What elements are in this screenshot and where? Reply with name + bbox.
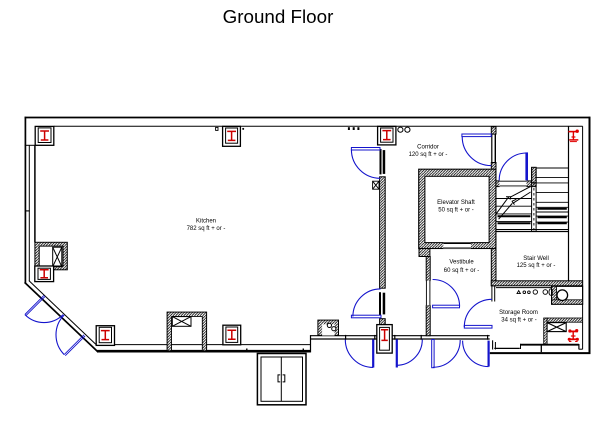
svg-text:Ground Floor: Ground Floor [223,6,334,27]
wall left inner [28,145,30,281]
landing door opening gap [500,180,527,187]
svg-text:50 sq ft + or -: 50 sq ft + or - [438,207,474,213]
svg-text:782 sq ft + or -: 782 sq ft + or - [187,226,226,232]
hatched wall kitchen-corridor [380,177,386,288]
wall diagonal outer [25,282,99,352]
svg-text:120 sq ft + or -: 120 sq ft + or - [409,152,448,158]
fixture box on corridor wall [318,320,339,335]
storage counter left end [520,344,522,349]
svg-text:Vestibule: Vestibule [449,260,474,266]
storage left wall line b [494,286,496,302]
bottom duct box [167,312,207,351]
wall bottom east thick [490,352,591,354]
corner shelf line [25,144,36,146]
small marks top wall [348,127,350,130]
storage counter top [521,344,579,346]
storage counter right end [578,344,580,349]
stair up arrow [495,187,530,220]
storage left wall line a [491,286,493,302]
column box top mid [223,126,241,146]
exit door D3 leaf + arc [432,340,434,368]
storage inner bottom segment [494,347,520,349]
wall east inner [582,126,584,349]
svg-text:125 sq ft + or -: 125 sq ft + or - [517,263,556,269]
storage counter tick [540,345,542,353]
storage SE jog a [492,340,494,349]
hatched stringer top [532,167,537,182]
hatched wall corridor-stair main [491,163,496,286]
exit door D1 leaf + arc [372,339,374,367]
hatched wall kitchen-corridor lower bit [380,319,386,326]
stair stringer [531,167,533,231]
vestibule left wall lower [426,305,430,335]
vestibule left wall upper [426,257,430,281]
exit door D4 leaf + arc [488,341,490,367]
storage counter shelf line [496,287,552,289]
water heater box [552,286,583,304]
stair bottom double line [496,229,568,231]
door corridor top: leaf + arc [462,134,491,137]
wall top outer [25,117,591,119]
stair chase line [568,126,570,285]
wall bottom west thin [96,344,311,346]
door vestibule SE: opening + leaf + arc [491,302,495,328]
wall bottom corridor upper line [311,335,490,337]
storage inner bottom right segment [579,348,583,350]
column box corner NW [35,126,54,145]
stairs [496,168,568,222]
window tick left wall [25,210,30,212]
storage SE jog b [494,342,496,350]
ceiling circles corridor [398,127,403,132]
svg-text:Kitchen: Kitchen [196,219,216,225]
storage counter symbols [517,291,520,294]
column box corridor bottom [377,325,392,354]
svg-text:Corridor: Corridor [417,144,439,150]
column box bottom mid [223,325,241,345]
door stair landing: leaf + arc [525,152,528,180]
door kitchen upper: jamb bars [380,149,382,174]
red chase symbol top right [568,130,579,142]
wall jog vertical [310,335,312,352]
tiny X-box on kitchen wall [373,181,379,189]
elevator shaft walls [419,169,496,248]
svg-text:34 sq ft + or -: 34 sq ft + or - [501,317,537,323]
diagonal door B leaf + arc [64,335,85,356]
hatched landing wall [496,181,536,187]
diagonal door A leaf + arc [25,295,45,315]
wall diagonal inner [29,281,97,345]
room labels [187,144,556,323]
wall top inner [54,125,583,127]
storage X-box table [547,323,566,332]
door vestibule west: opening + leaf + arc [426,281,431,306]
wall bottom corridor lower line [311,338,490,340]
red sprinkler symbol storage [568,329,579,342]
column box left low [35,266,54,282]
wall bottom west thick [97,350,310,353]
door kitchen upper: leaf + arc [351,148,380,151]
exit door D2 leaf + arc [396,339,398,367]
column box bottom west [96,326,114,346]
entry wall ticks [246,349,248,353]
jamb ticks corridor bottom wall [346,335,488,340]
entry vestibule double door [257,354,306,405]
vestibule wall step [419,249,430,257]
wall left outer [24,117,26,283]
door corridor top: jamb bars [491,134,492,162]
door kitchen lower: jamb bars [379,292,381,315]
storage hatch band top [547,318,583,322]
left duct box [35,242,67,269]
elevator door gap [443,243,471,249]
hatched wall corridor-stair upper bit [491,127,496,134]
svg-text:Storage Room: Storage Room [499,310,538,316]
wall east outer [589,117,591,354]
door kitchen lower: leaf + arc [351,315,381,318]
svg-text:60 sq ft + or -: 60 sq ft + or - [444,268,480,274]
storage hatch band left of X-box [544,318,547,344]
column box top right [378,126,396,144]
svg-text:Stair Well: Stair Well [523,256,549,262]
wall left extra line [34,145,36,242]
svg-text:Elevator Shaft: Elevator Shaft [437,200,475,206]
stairwell bottom wall [491,281,582,286]
